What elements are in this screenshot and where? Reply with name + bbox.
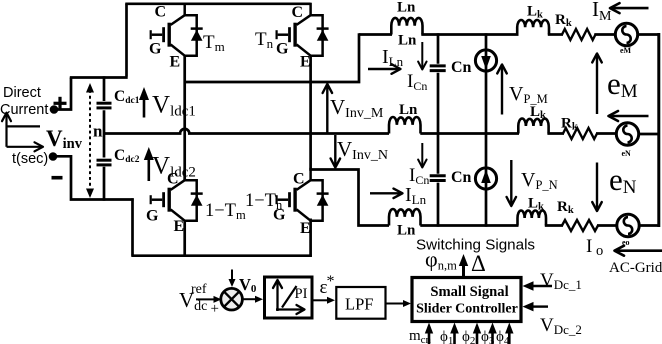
label phi_4 [496,329,510,344]
label t(sec) [12,151,48,167]
arrow phi2 input [473,323,481,344]
label V_P_N [521,169,558,192]
svg-text:Ln: Ln [397,0,416,16]
label C_dc1 [114,88,140,106]
wire N line Lk to Rk [545,224,563,227]
arrow phi1 input [450,323,459,344]
svg-text:Slider Controller: Slider Controller [416,302,518,317]
resistor Rk (N line) [562,220,598,231]
inductor Ln (top) [391,18,422,35]
inductor Lk (M line) [518,118,548,133]
label C_dc2 [114,147,140,165]
arrow row M->N grid [609,111,649,121]
graph DC waveform axes [2,113,43,152]
label eM small [620,46,632,55]
label epsilon* [320,273,335,298]
current source P_M [475,50,496,71]
label Ln (top below) [398,33,417,49]
label V_Dc_2 [540,315,582,337]
svg-text:Small Signal: Small Signal [430,284,508,300]
arrow V0 into summer [229,270,236,288]
label V_0 [239,275,257,295]
label phi_2 [462,329,475,344]
svg-text:ref: ref [191,282,207,297]
wire Rk to eM [594,33,616,36]
wire top bus [125,2,310,5]
transistor Q1 Tm [151,3,203,56]
arrow LPF to controller [386,300,412,307]
arrow I_o [615,246,662,256]
label I_o [586,236,603,259]
arrow I_Cn (lower) [418,143,427,168]
wire lower-right emitter [309,219,312,257]
wire right bus [657,33,660,227]
label Lk (top) [527,4,543,21]
wire capacitor column [103,76,106,200]
block LPF [336,287,385,319]
wire top M line left [359,33,392,36]
wire Rk to eN [596,132,618,135]
label plus sign [54,97,67,110]
wire N output line [309,170,389,227]
label Lk (N line) [528,196,544,213]
label eo small [622,238,630,247]
wire bottom-left step [131,198,134,255]
wire eM to bus [637,33,661,36]
label C of Tm [155,4,167,21]
wire - terminal to bottom [55,156,134,199]
svg-text:Cn: Cn [451,169,472,186]
arrow e_N [592,163,602,212]
label eN small [622,149,632,158]
svg-text:Ln: Ln [397,223,416,239]
label Ln (M line) [399,102,418,118]
wire top-left horizontal [70,76,128,79]
svg-text:C: C [292,4,304,21]
ac source eN [616,123,638,145]
label phi_3 [481,329,495,344]
wire Rk to eo [597,224,618,227]
node DC negative terminal [49,152,58,161]
svg-text:C: C [167,171,179,188]
wire n line with hop over Tm leg [104,129,389,134]
label Tn [255,29,274,51]
svg-text:E: E [170,54,181,71]
label I_Cn (upper) [407,71,427,93]
transistor Q3 1-Tm [151,168,203,221]
capacitor Cn (lower) [430,176,446,181]
arrow e_M [592,54,602,115]
label Delta [471,251,486,276]
svg-text:G: G [146,208,159,225]
svg-text:Direct: Direct [3,85,41,101]
label 1-Tn [245,191,283,212]
summer junction [221,288,243,310]
inductor Lk (top) [517,20,549,35]
arrow phi3 input [488,323,497,344]
label V_P_M [509,83,548,106]
label V_Inv_M [330,95,384,121]
label G of 1-Tm [146,208,159,225]
wire eo to bus [638,224,660,227]
arrow I_Ln (lower) [370,189,403,199]
arrow V_ldc2 [144,147,154,181]
wire Cn column [437,33,440,226]
label E of Tn [300,54,311,71]
svg-text:E: E [174,218,185,235]
resistor Rk (M line) [563,128,597,139]
wire eN to bus [638,133,661,136]
svg-text:Δ: Δ [471,251,486,276]
wire M line Lk to Rk [547,132,564,135]
svg-text:G: G [276,41,289,58]
arrow I_M [610,3,649,13]
current source P_N [475,168,496,189]
inductor Ln (M line) [389,117,421,134]
svg-text:E: E [300,220,311,237]
label m_cn [409,328,432,344]
label G of Tm [149,41,162,58]
arrow m_cn input [425,323,433,344]
svg-text:*: * [327,273,335,290]
transistor Q2 Tn [277,3,329,56]
label V_ldc2 [152,153,196,181]
svg-text:eN: eN [622,149,632,158]
arrow V_Inv_M [323,84,333,133]
label phi_nm [425,247,457,273]
label C of 1-Tm [167,171,179,188]
arrow V_Inv_N [331,135,341,168]
arrow phi4 input [505,323,513,344]
label e_N [609,162,637,198]
svg-text:Ln: Ln [399,102,418,118]
measure dashed double arrow V_inv [86,83,94,198]
label Switching Signals [416,237,535,254]
label C of Tn [292,4,304,21]
label E of 1-Tm [174,218,185,235]
svg-text:E: E [300,54,311,71]
label AC-Grid [609,260,662,276]
label minus sign [52,176,63,180]
arrow I_Ln (upper) [368,64,401,74]
label e_M [607,66,638,102]
svg-text:C: C [293,171,305,188]
label 1-Tm [205,201,246,222]
arrow I_Cn (upper) [418,42,427,70]
wire Tn leg vertical [309,55,312,171]
label V_ldc1 [152,92,196,120]
label plus at summer [211,301,219,317]
svg-text:G: G [149,41,162,58]
arrow PI to LPF [312,297,335,304]
label Lk (M line) [530,104,546,121]
label G of 1-Tn [273,207,286,224]
arrow Vdc_ref to summer [196,296,222,303]
wire inverter left vertical [125,4,128,77]
capacitor C_dc1 [97,103,112,108]
label Direct Current [0,85,48,118]
wire n line right of Ln coil [420,132,519,135]
label Rk (top) [555,12,572,29]
wire N line right of Ln coil [420,224,518,227]
svg-text:+: + [211,301,219,317]
label E of 1-Tn [300,220,311,237]
label I_M [592,0,612,24]
svg-text:n: n [93,122,103,141]
node DC positive terminal [50,105,59,114]
wire lower-left emitter [183,220,186,257]
resistor Rk (top) [562,29,595,40]
arrow V_P_N [507,160,516,206]
svg-text:eM: eM [620,46,632,55]
inductor Lk (N line) [518,210,547,225]
label E of Tm [170,54,181,71]
label I_Ln (lower) [405,184,427,207]
svg-text:Ln: Ln [398,33,417,49]
svg-text:C: C [155,4,167,21]
capacitor C_dc2 [97,160,112,165]
node n [93,122,103,141]
svg-text:AC-Grid: AC-Grid [609,260,662,276]
wire top line Ln to Lk [421,33,518,36]
svg-text:t(sec): t(sec) [12,151,48,167]
label Tm [203,32,225,54]
label Rk (N line) [557,199,574,216]
block PI [265,277,313,318]
label Ln (top above) [397,0,416,16]
arrow V_Dc_2 into controller [523,302,549,312]
label Rk (M line) [561,116,578,133]
svg-text:PI: PI [295,286,308,302]
label G of Tn [276,41,289,58]
inductor Ln (N line) [389,209,421,226]
label Ln (N line) [397,223,416,239]
label I_Ln (upper) [382,46,404,69]
svg-text:Cn: Cn [451,59,472,76]
block Small Signal Slider Controller [412,278,521,322]
wire Tm leg vertical [183,55,186,181]
label I_Cn (lower) [409,165,429,187]
wire M output line [184,33,361,83]
label V_dc_ref [179,282,207,314]
arrow V_Dc_1 into controller [523,281,553,291]
svg-text:LPF: LPF [345,295,373,314]
label V_Inv_N [337,137,388,163]
label Cn (upper) [451,59,472,76]
arrow phi_nm output up [459,254,468,278]
ac source eo [617,214,639,236]
label V_Dc_1 [540,270,582,292]
wire bottom bus [131,254,311,257]
capacitor Cn (upper) [430,66,446,71]
arrow V_ldc1 [139,87,149,118]
label C of 1-Tn [293,171,305,188]
wire current-source column [485,33,488,226]
ac source eM [615,23,637,45]
arrow summer to PI [243,296,263,303]
label phi_1 [440,329,453,344]
label V_inv [46,126,83,152]
arrow V_P_M [497,65,507,115]
wire + terminal to top bus [56,78,71,110]
label Cn (lower) [451,169,472,186]
wire top line Lk to Rk [548,33,563,36]
transistor Q4 1-Tn [277,168,329,221]
